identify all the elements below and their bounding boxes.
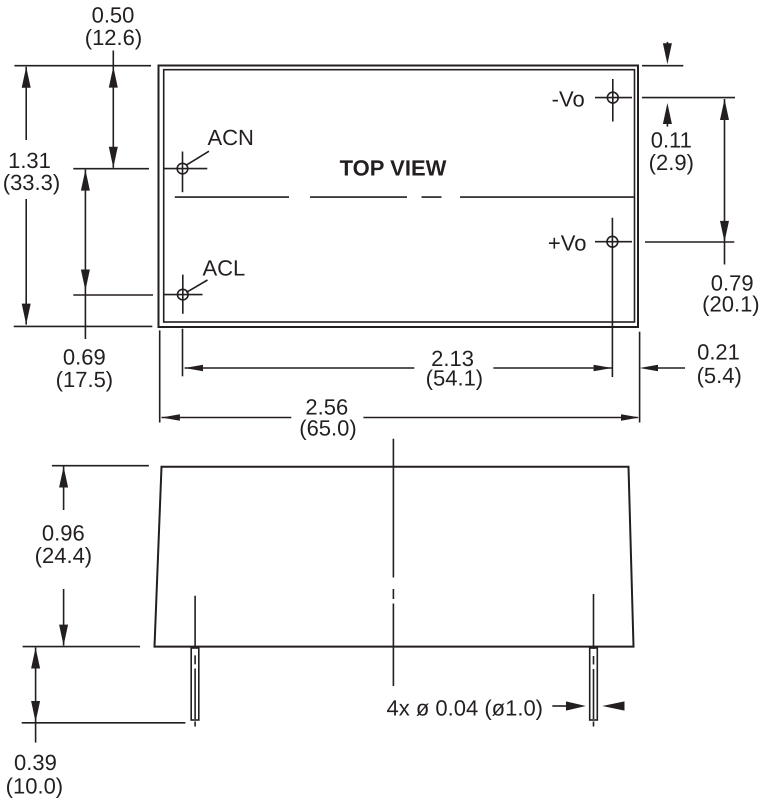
svg-text:(12.6): (12.6)	[85, 25, 142, 50]
dimension 0.96 (24.4)	[63, 467, 65, 511]
svg-text:TOP VIEW: TOP VIEW	[340, 156, 447, 181]
svg-text:+Vo: +Vo	[548, 231, 587, 256]
extension line pin bottom	[22, 722, 186, 724]
extension line below ACL	[182, 329, 184, 377]
extension line side-view bottom	[23, 646, 140, 648]
svg-text:-Vo: -Vo	[552, 87, 585, 112]
svg-text:(10.0): (10.0)	[6, 774, 63, 799]
dimension 0.11 (2.9)	[666, 42, 668, 46]
svg-text:(20.1): (20.1)	[702, 291, 759, 316]
module outline top view outer	[159, 66, 639, 328]
dimension 1.31 (33.3)	[25, 67, 27, 140]
extension line side-view top	[52, 465, 149, 467]
svg-text:(24.4): (24.4)	[35, 543, 92, 568]
pin -Vo	[607, 92, 618, 103]
pin +Vo	[607, 236, 618, 247]
leader arrow left of pin	[552, 705, 567, 707]
leader arrow right of pin	[602, 701, 624, 710]
svg-text:(33.3): (33.3)	[3, 170, 60, 195]
dimension 0.79 (20.1)	[724, 99, 726, 265]
svg-text:ACN: ACN	[208, 125, 254, 150]
pin ACN	[177, 163, 188, 174]
extension line +Vo row	[645, 241, 734, 243]
extension line top-right	[642, 65, 683, 67]
leader ACL	[186, 280, 207, 292]
svg-text:(5.4): (5.4)	[697, 363, 742, 388]
svg-text:(2.9): (2.9)	[649, 150, 694, 175]
extension line ACN row	[73, 168, 149, 170]
center line (side view)	[392, 439, 394, 686]
svg-text:4x ø 0.04 (ø1.0): 4x ø 0.04 (ø1.0)	[387, 696, 544, 721]
svg-text:0.21: 0.21	[697, 340, 740, 365]
leader ACN	[186, 151, 209, 165]
svg-text:(65.0): (65.0)	[299, 415, 356, 440]
dimension 2.56 (65.0)	[162, 417, 292, 419]
extension line -Vo row	[642, 97, 735, 99]
dimension 0.39 (10.0)	[35, 648, 37, 743]
svg-text:0.11: 0.11	[651, 128, 692, 153]
pin ACL	[178, 289, 189, 300]
extension line below module right edge	[639, 332, 641, 423]
dimension 0.69 (17.5)	[84, 170, 86, 339]
svg-text:(17.5): (17.5)	[56, 367, 113, 392]
pin right (side view)	[590, 648, 598, 720]
center line (top view)	[175, 196, 634, 198]
svg-text:(54.1): (54.1)	[426, 366, 483, 391]
pin left (side view)	[191, 648, 199, 720]
extension line bottom-left	[14, 325, 153, 327]
dimension 0.21 (5.4)	[658, 367, 685, 369]
module outline top view inner	[164, 70, 635, 322]
module outline side view	[155, 467, 634, 647]
extension line below module left edge	[159, 330, 161, 422]
svg-text:0.96: 0.96	[42, 521, 85, 546]
dimension 0.50 (12.6)	[112, 51, 114, 168]
dimension 2.13 (54.1)	[185, 367, 415, 369]
extension line ACL row	[73, 294, 153, 296]
extension line top-left	[14, 65, 151, 67]
svg-text:0.50: 0.50	[92, 2, 135, 27]
svg-text:ACL: ACL	[203, 256, 246, 281]
svg-text:0.39: 0.39	[14, 750, 57, 775]
